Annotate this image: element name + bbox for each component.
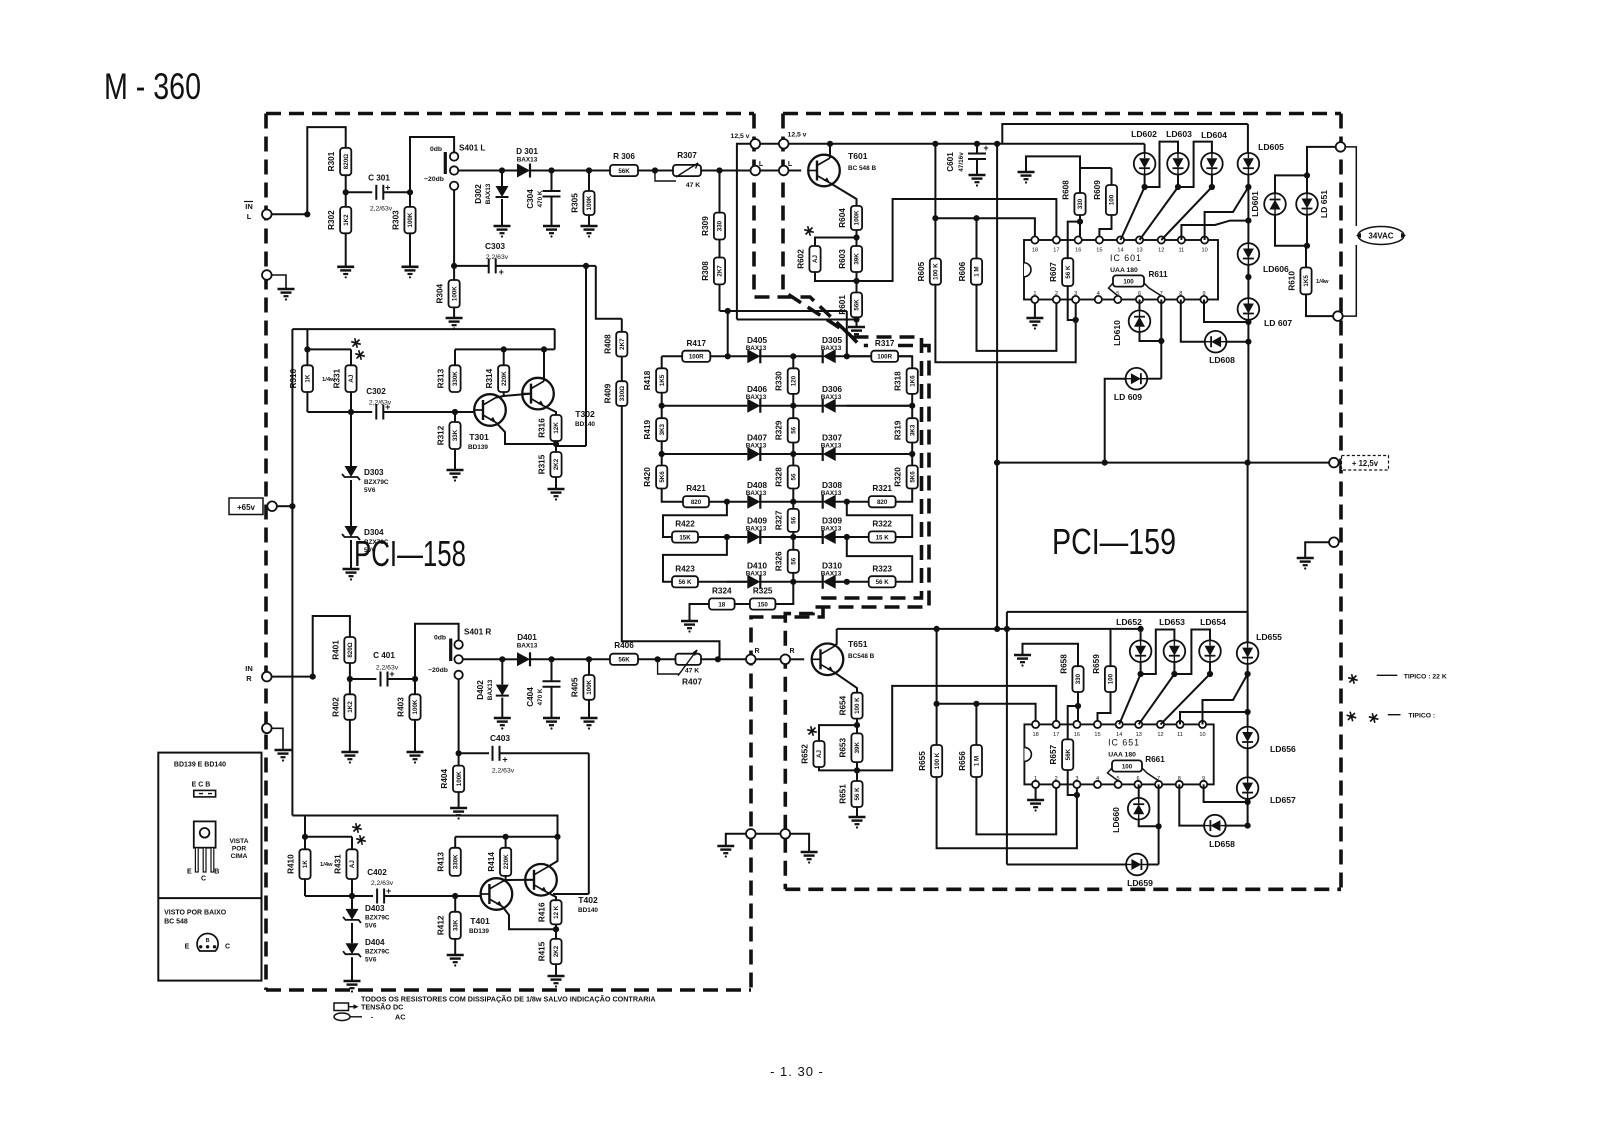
svg-text:BAX13: BAX13 [746,570,767,577]
svg-text:R303: R303 [392,210,401,230]
pin 2 IC601 [1053,296,1060,303]
wire T301 emitter to node below R316 [496,423,556,445]
svg-text:D402: D402 [476,680,485,700]
pin 4 IC651 [1094,781,1101,788]
wire R414 bottom to T401 collector and T402 base [502,876,505,882]
wire C402 to T401 base [384,895,455,897]
svg-text:E: E [185,944,190,951]
svg-text:R414: R414 [487,852,496,872]
svg-text:R656: R656 [958,751,967,771]
ground below R412 [454,939,456,955]
svg-text:R324: R324 [712,587,732,596]
wire R310/R311 top tie [306,329,308,349]
wire 12.5v rail top [789,143,1010,145]
svg-text:R605: R605 [917,261,926,281]
svg-text:R401: R401 [331,640,340,660]
resistor R326 [788,550,799,573]
resistor R414 [500,848,511,876]
LED LD657 [1237,777,1259,799]
wire matrix input riser (row1 to signal line) [727,311,729,356]
input terminal (ground) L [262,270,272,280]
svg-text:R651: R651 [839,784,848,804]
ground below D402 [501,698,503,718]
resistor R322 [869,531,896,542]
package top view symbol [194,790,216,797]
wire LD653 fan to pin13 [1139,662,1175,724]
svg-text:39K: 39K [854,742,861,754]
resistor R652 (adjustable) [813,741,824,767]
wire R655/R656 top tie to pin18 [937,704,1036,725]
node R410/R431 bottom / C402 / D403 [304,879,306,896]
svg-text:IN: IN [245,202,253,211]
wire D307 anode [835,453,913,455]
node C401/R403 [412,676,418,682]
wire R661 to pin7 [1142,768,1159,781]
wire node to C303 [454,265,489,267]
wire D305 node to R317 [844,353,850,359]
terminal 34VAC top [1336,142,1346,152]
svg-text:LD655: LD655 [1256,632,1282,642]
resistor R320 [907,466,918,489]
svg-text:12: 12 [1157,732,1163,738]
svg-text:LD608: LD608 [1209,355,1235,365]
svg-text:R407: R407 [682,677,702,687]
resistor R303 [404,207,415,233]
svg-text:BAX13: BAX13 [821,490,842,497]
resistor R302 [340,207,351,233]
wire matrix feed riser [596,266,622,319]
svg-text:AJ: AJ [349,860,356,868]
svg-text:D403: D403 [365,904,385,913]
resistor R659 [1110,629,1112,666]
BC548 bottom view [197,933,218,951]
svg-text:VISTA: VISTA [230,838,249,845]
TO-126 package body [194,821,216,847]
resistor R610 [1305,246,1307,268]
wire T402 emitter to feedback node [547,892,556,900]
svg-text:15K: 15K [679,534,691,541]
wire R314 bottom to T301 collector and T302 base [496,392,504,398]
svg-text:T601: T601 [848,151,868,161]
wire pin9 to chain lower [1204,784,1248,802]
svg-text:R610: R610 [1288,271,1297,291]
svg-text:+: + [385,182,390,192]
svg-text:D302: D302 [474,184,483,204]
svg-text:B: B [206,938,210,944]
wire rail down to lower board [996,463,998,629]
wire to C401 [350,678,377,680]
svg-text:34VAC: 34VAC [1368,232,1393,241]
ground below R315 [555,477,557,489]
svg-text:47/16v: 47/16v [958,152,965,172]
wire LD602 bottom fan to pin14 [1121,175,1145,241]
resistor R611 [1113,275,1144,286]
capacitor C303 [488,258,490,273]
terminal gnd left bottom [746,829,756,839]
ground at right bottom terminal [790,834,809,852]
wire rail corner to tie [554,329,556,349]
pin 8 IC601 [1177,296,1184,303]
node R401/R402/C401 [349,663,351,694]
svg-text:R315: R315 [538,454,547,474]
wire LD605 top from LED line [1247,124,1249,153]
diode D401 [517,652,530,666]
pin 1 IC651 [1032,781,1039,788]
svg-text:BAX13: BAX13 [746,345,767,352]
wire R410/R431 top tie [304,816,306,837]
resistor R314 [498,365,509,392]
svg-text:5V6: 5V6 [364,547,376,554]
wire LD602/LD603 series hook [1145,142,1178,187]
wire to R305 node [552,170,590,172]
svg-text:R406: R406 [614,641,634,650]
svg-text:LD652: LD652 [1116,617,1142,627]
wire collector rail lower [837,628,1110,630]
pin 16 IC601 [1075,236,1082,243]
LED LD610 [1129,310,1151,332]
wire D306 anode [835,405,913,407]
wire R409 down to R channel line [622,406,720,659]
svg-text:R659: R659 [1092,654,1101,674]
wire rail riser R655 [936,629,938,704]
svg-text:1K: 1K [305,374,312,382]
34VAC bracket [1345,147,1356,226]
diode D406 [747,399,760,413]
wire pin11 zigzag to LED chain lower [1180,712,1248,724]
wire R422 to D409 node [698,536,727,538]
svg-text:R403: R403 [397,697,406,717]
resistor R401 [344,637,355,663]
svg-text:100: 100 [1122,763,1133,770]
transistor T302 [522,378,554,410]
diode D306 [823,399,836,413]
PCI-159 board outline (dashed) [783,112,1341,116]
svg-text:820Ω: 820Ω [347,642,354,657]
svg-text:3K3: 3K3 [659,423,666,435]
star mark R652 [807,726,817,736]
wire R658 bottom to pin16 [1077,692,1079,724]
svg-text:1/4w: 1/4w [1316,279,1329,285]
pin 16 IC651 [1073,721,1080,728]
svg-text:LD658: LD658 [1209,839,1235,849]
ground below R402 [349,720,351,752]
svg-text:5V6: 5V6 [365,957,377,964]
svg-text:R603: R603 [838,249,847,269]
svg-text:100K: 100K [586,679,593,694]
wire -20db contact down to R304 node [453,190,455,266]
svg-text:TENSÃO DC: TENSÃO DC [361,1003,403,1012]
input terminal IN L [262,210,272,220]
wire 12.5v feed down [737,144,751,320]
svg-text:2,2/63v: 2,2/63v [369,400,392,407]
svg-text:100K: 100K [456,771,463,786]
svg-text:R415: R415 [538,941,547,961]
svg-text:1: 1 [1034,776,1037,782]
svg-text:T402: T402 [578,895,598,905]
pin 4 IC601 [1095,296,1102,303]
pin 9 IC651 [1200,781,1207,788]
svg-text:6: 6 [1138,291,1141,297]
wire LD602 top from rail [1144,144,1146,153]
node below R653 [856,762,858,781]
svg-text:100K: 100K [407,212,414,227]
terminal R right [781,655,791,665]
svg-text:R422: R422 [675,520,695,529]
terminal R left [746,655,756,665]
svg-text:R405: R405 [571,677,580,697]
wire node up to 0db contact R [415,624,459,679]
node below R603 [856,272,858,293]
svg-text:BD139: BD139 [468,444,488,451]
svg-text:D307: D307 [822,433,842,443]
wire LD653/LD654 series hook [1174,630,1210,675]
svg-text:18: 18 [1032,248,1038,254]
wire R317 to right column [898,356,912,368]
svg-text:C304: C304 [526,189,535,209]
svg-text:BAX13: BAX13 [821,526,842,533]
ground below C304 [551,197,553,227]
resistor R408 [621,319,623,332]
svg-text:BAX13: BAX13 [517,157,538,164]
pin 18 IC601 [1031,236,1038,243]
svg-text:S401 L: S401 L [459,144,485,153]
svg-text:56 K: 56 K [1065,265,1072,279]
wire L to T601 base [789,170,802,172]
pin 6 IC651 [1134,781,1141,788]
resistor R309 [719,171,721,213]
resistor R605 [930,259,941,285]
pin 18 IC651 [1032,721,1039,728]
pin 10 IC601 [1201,236,1208,243]
resistor R318 [907,368,918,394]
svg-text:IC 601: IC 601 [1110,253,1142,263]
transistor T601 [808,155,840,187]
svg-text:BZX79C: BZX79C [365,949,390,956]
diode D410 [747,575,760,589]
capacitor C402 [352,895,373,897]
wire D408 to center node [759,501,793,503]
transistor T401 [481,878,513,910]
svg-text:R307: R307 [677,151,697,160]
ground below C404 [551,687,553,718]
zener diode D404 [351,923,353,943]
wire R325 to R324 [735,603,750,605]
wire R609 top link [1080,167,1112,169]
terminal L right [779,166,789,176]
svg-text:R304: R304 [436,283,445,303]
svg-text:D405: D405 [747,335,767,345]
resistor R308 [719,240,721,258]
ground below pin1 [1034,303,1036,318]
svg-text:470 K: 470 K [537,190,544,207]
LED LD654 [1199,640,1221,662]
resistor R325 [750,598,776,609]
34VAC label [1358,227,1404,245]
LED LD658 [1204,815,1226,837]
svg-text:100K: 100K [412,699,419,714]
svg-text:330: 330 [717,220,724,231]
wire D305 node up to signal line [846,311,848,356]
svg-text:5K6: 5K6 [659,471,666,483]
svg-text:- 1. 30 -: - 1. 30 - [770,1064,824,1079]
svg-text:BD140: BD140 [578,907,598,914]
svg-text:R330: R330 [775,371,784,391]
wire node to C403 [459,752,489,754]
ground below R403 [414,720,416,752]
diode D310 [823,575,836,589]
resistor R412 [454,896,456,912]
node R309 top [716,167,722,173]
svg-text:D410: D410 [747,560,767,570]
svg-text:56K: 56K [618,168,630,175]
svg-text:1K: 1K [302,860,309,868]
svg-text:R658: R658 [1060,654,1069,674]
svg-text:56: 56 [791,516,798,523]
wire switch to D301 [458,170,502,172]
tipico note 1 [1348,674,1358,684]
svg-text:56: 56 [791,473,798,480]
zener diode D303 [350,412,352,466]
resistor R321 [869,496,896,507]
pin 5 IC601 [1114,296,1121,303]
ground below pin1 [1035,788,1037,800]
svg-text:470 K: 470 K [537,688,544,705]
svg-text:LD603: LD603 [1166,129,1192,139]
node C304 [548,167,554,173]
diode D309 [823,530,836,544]
svg-text:R611: R611 [1148,270,1168,279]
wire R655 bottom to pin3 lower [937,777,1077,848]
wire to R602 [815,238,857,247]
zener diode D304 [350,480,352,526]
node D302 junction [499,167,505,173]
svg-text:LD 609: LD 609 [1114,392,1142,402]
ground below D302 [501,199,503,226]
wire center column to R325 [775,582,793,604]
svg-text:TIPICO :: TIPICO : [1408,713,1435,720]
ground at L input [272,275,286,289]
svg-text:100 K: 100 K [854,697,861,714]
resistor R301 [340,148,351,175]
resistor R315 [550,452,561,477]
wire LD607 down to LD608 node [1247,320,1249,342]
node C301/R303 [407,189,413,195]
resistor R317 [871,351,898,362]
wire R417 to D405 node [710,355,747,357]
pin 14 IC601 [1117,236,1124,243]
svg-text:330Ω: 330Ω [619,386,626,401]
svg-text:7: 7 [1160,291,1163,297]
svg-text:BC548 B: BC548 B [848,653,875,660]
svg-text:R301: R301 [327,151,336,171]
svg-text:R319: R319 [894,420,903,440]
svg-text:3: 3 [1074,291,1077,297]
wire LD609 left riser to +12.5 rail [1105,379,1126,463]
LED LD602 [1134,153,1156,175]
wire gnd interboard [756,833,781,835]
svg-text:3K3: 3K3 [909,424,916,436]
svg-text:2,2/63v: 2,2/63v [492,768,515,775]
wire T651 emitter to R654 [834,672,858,693]
capacitor C301 [375,185,377,200]
wire 12.5v interboard [760,143,779,145]
wire LD605 chain down [1247,175,1249,244]
wire R652 bottom to node [819,767,857,770]
wire to C301 [346,191,373,193]
svg-text:R413: R413 [437,852,446,872]
svg-text:100 K: 100 K [934,752,941,769]
svg-text:9: 9 [1202,776,1205,782]
legend AC symbol [334,1013,350,1021]
wire T401 emitter to node below R416 [502,907,556,930]
svg-text:R322: R322 [872,520,892,529]
svg-text:D409: D409 [747,516,767,526]
ground bracket R608 [1026,156,1080,193]
node below R654 [856,719,858,734]
svg-text:UAA 180: UAA 180 [1108,751,1136,758]
node T301 base / R313 / R312 [452,409,458,415]
svg-text:R: R [246,674,252,683]
LED LD604 [1201,153,1223,175]
wire node to R301 top rail [307,127,345,214]
svg-text:100K: 100K [451,286,458,301]
svg-text:10: 10 [1199,732,1205,738]
R407 tap wire [658,659,679,674]
svg-text:2K2: 2K2 [553,458,560,470]
resistor R653 [851,733,862,762]
resistor R420 [656,466,667,489]
svg-text:R327: R327 [775,510,784,530]
svg-text:13: 13 [1136,248,1142,254]
capacitor C401 [380,672,382,687]
pin 15 IC651 [1094,721,1101,728]
svg-text:BZX79C: BZX79C [364,539,389,546]
wire switch to D401 [463,658,503,660]
svg-text:14: 14 [1116,732,1122,738]
wire R313/R314 tie [455,348,555,350]
resistor R324 [709,598,735,609]
wire C303 feedback from T302 down-line [585,266,587,446]
svg-text:BAX13: BAX13 [821,443,842,450]
svg-text:R652: R652 [801,744,810,764]
node +65v rail [289,503,295,509]
svg-text:LD602: LD602 [1131,129,1157,139]
wire rail riser R605 [934,144,936,259]
input terminal (ground) R [262,724,272,734]
wire rail to LED top line [1002,124,1248,144]
ground below R303 [409,233,411,266]
svg-text:C303: C303 [485,241,505,251]
resistor R418 [656,368,667,392]
TO-126 legs [195,848,198,872]
svg-text:R310: R310 [289,368,298,388]
svg-text:330: 330 [1077,198,1084,209]
svg-text:12 K: 12 K [553,905,560,919]
terminal 12.5v left [751,139,761,149]
svg-text:LD 651: LD 651 [1319,190,1329,218]
wire C403 to feedback riser [500,752,589,754]
svg-text:17: 17 [1053,248,1059,254]
resistor R661 [1112,760,1142,771]
svg-text:C: C [225,944,230,951]
svg-text:100: 100 [1109,194,1116,205]
svg-text:R604: R604 [838,208,847,228]
wire R301-R302 node [345,175,347,207]
node R301/R302/C301 [343,189,349,195]
svg-text:R328: R328 [775,467,784,487]
svg-text:D306: D306 [822,384,842,394]
svg-text:PCI—159: PCI—159 [1052,521,1176,562]
